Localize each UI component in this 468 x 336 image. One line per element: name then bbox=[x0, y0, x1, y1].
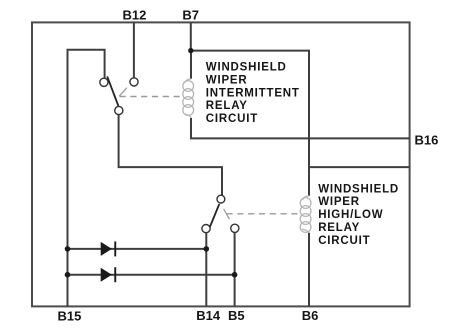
relay box 2 (high/low) top edge bbox=[309, 166, 410, 168]
svg-text:WINDSHIELD: WINDSHIELD bbox=[318, 183, 399, 195]
wire left hook from switch contact up and down left side to B15 bbox=[68, 50, 105, 307]
switch 1 blade bbox=[107, 76, 118, 106]
junction dot diode2 right bbox=[232, 272, 238, 278]
wire B16 line bbox=[309, 137, 410, 139]
switch 2 linkage tick bbox=[224, 209, 230, 219]
wire B14 drop bbox=[205, 233, 207, 307]
relay 2 coil bbox=[300, 196, 311, 233]
switch 1 common contact bbox=[115, 106, 123, 114]
switch 2 top contact bbox=[217, 195, 225, 203]
svg-text:B6: B6 bbox=[302, 308, 319, 323]
junction dot diode1 right bbox=[204, 246, 210, 252]
svg-text:B7: B7 bbox=[182, 8, 199, 23]
switch 2 right contact bbox=[231, 224, 239, 232]
svg-text:INTERMITTENT: INTERMITTENT bbox=[206, 87, 300, 99]
wire diode row 2 bbox=[68, 274, 235, 276]
wire switch1 common down and right to switch2 bbox=[119, 115, 222, 196]
wire B12 bbox=[133, 22, 135, 78]
wire B5 drop bbox=[234, 233, 236, 307]
relay box 1 (intermittent) bbox=[191, 51, 309, 139]
svg-text:CIRCUIT: CIRCUIT bbox=[318, 235, 370, 247]
switch 1 linkage tick bbox=[119, 88, 127, 97]
svg-text:B5: B5 bbox=[228, 308, 245, 323]
relay 1 text bbox=[206, 62, 300, 126]
svg-text:HIGH/LOW: HIGH/LOW bbox=[318, 209, 383, 221]
svg-text:WIPER: WIPER bbox=[206, 74, 248, 86]
svg-text:WINDSHIELD: WINDSHIELD bbox=[206, 62, 287, 74]
wire diode row 1 bbox=[68, 248, 207, 250]
svg-text:RELAY: RELAY bbox=[206, 100, 248, 112]
diode D1 bbox=[101, 241, 117, 256]
svg-text:WIPER: WIPER bbox=[318, 196, 360, 208]
junction dot diode2 left bbox=[65, 272, 71, 278]
junction dot B7/box1 bbox=[188, 48, 193, 53]
switch 2 blade bbox=[208, 204, 220, 233]
svg-text:B15: B15 bbox=[58, 308, 82, 323]
svg-text:B16: B16 bbox=[415, 133, 439, 148]
relay 1 coil bbox=[183, 79, 194, 118]
switch 1 right contact bbox=[130, 78, 138, 86]
wire inner vertical to relay box 2 / B6 bbox=[308, 138, 310, 195]
switch 2 dashed link bbox=[227, 213, 301, 215]
relay 2 text bbox=[318, 183, 399, 247]
switch 1 left contact bbox=[100, 78, 108, 86]
svg-text:B14: B14 bbox=[196, 308, 221, 323]
diode D2 bbox=[101, 267, 117, 282]
svg-text:RELAY: RELAY bbox=[318, 222, 360, 234]
outer box bbox=[32, 22, 410, 306]
switch 2 left contact bbox=[202, 225, 210, 233]
svg-text:B12: B12 bbox=[123, 8, 147, 23]
junction dot diode1 left bbox=[65, 246, 71, 252]
wire B7 bbox=[190, 22, 192, 50]
switch 1 dashed link bbox=[120, 96, 184, 98]
svg-text:CIRCUIT: CIRCUIT bbox=[206, 113, 258, 125]
